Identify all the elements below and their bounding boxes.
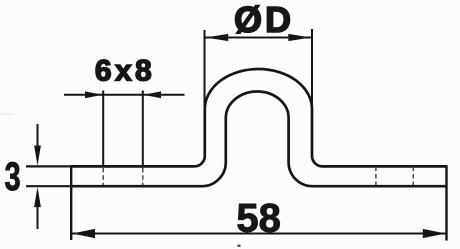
left slot edge left, hidden line in strip bbox=[102, 168, 104, 185]
svg-text:ØD: ØD bbox=[234, 0, 294, 40]
dimension ØD: dimension line bbox=[205, 37, 313, 39]
right slot edge left, hidden line in strip bbox=[375, 167, 377, 186]
faint scan artifact dash at left edge bbox=[0, 114, 14, 116]
part left end face + 58 extension line bbox=[70, 165, 72, 240]
dimension 3: top extension line bbox=[26, 165, 71, 167]
dimension 3: upper dimension line segment bbox=[37, 124, 39, 160]
svg-text:6x8: 6x8 bbox=[95, 55, 155, 88]
dimension 6x8: right arrowhead bbox=[143, 91, 161, 98]
dimension 6x8: right extension line bbox=[142, 91, 144, 166]
dimension 58: dimension line bbox=[71, 233, 446, 235]
dimension 6x8: left arrowhead bbox=[85, 91, 103, 98]
dimension 3: bottom extension line bbox=[26, 185, 71, 187]
svg-text:58: 58 bbox=[236, 197, 281, 241]
dimension 6x8: dimension line bbox=[64, 94, 185, 96]
part right end face + 58 extension line bbox=[445, 165, 447, 240]
svg-text:3: 3 bbox=[5, 154, 21, 199]
dimension 3: upper arrowhead pointing down bbox=[34, 146, 41, 166]
dimension ØD: left extension line bbox=[204, 30, 206, 112]
dimension 6x8: left extension line bbox=[102, 91, 104, 166]
dimension 58: right arrowhead bbox=[423, 229, 446, 238]
dimension ØD: left arrowhead bbox=[206, 34, 229, 41]
left slot edge right, hidden line in strip bbox=[142, 168, 144, 185]
dimension 3: lower arrowhead pointing up bbox=[34, 187, 41, 207]
dimension ØD: right extension line bbox=[311, 29, 313, 112]
right slot edge right, hidden line in strip bbox=[412, 167, 414, 186]
centerline tick below 58 dimension line bbox=[238, 245, 241, 248]
dimension ØD: right arrowhead bbox=[288, 34, 311, 41]
dimension 3: lower dimension line segment bbox=[37, 192, 39, 229]
part outline: bottom surface of strip with inner dome bbox=[71, 92, 447, 187]
part outline: top surface of strip with outer dome bbox=[71, 69, 447, 166]
dimension 58: left arrowhead bbox=[72, 229, 95, 238]
